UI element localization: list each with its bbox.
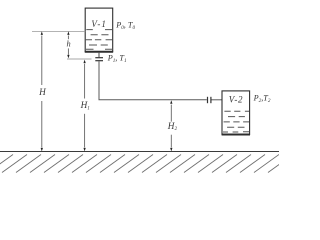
- svg-text:P0, T0: P0, T0: [115, 21, 135, 32]
- datum line at valve level: [67, 58, 92, 60]
- V-2 liquid dashes: [223, 111, 249, 132]
- svg-text:P1, T1: P1, T1: [107, 53, 127, 64]
- svg-text:H: H: [38, 87, 47, 97]
- valve (orifice) before V-2: [208, 97, 211, 103]
- valve (orifice) below V-1: [95, 58, 103, 61]
- ground hatching: [0, 155, 293, 173]
- liquid level line: [32, 30, 85, 32]
- dimension H2 (line + arrows): [170, 105, 172, 148]
- dimension H (line + arrows): [41, 36, 43, 148]
- svg-text:h: h: [67, 40, 71, 49]
- pipe into V-2: [212, 99, 223, 101]
- V-1 liquid dashes: [86, 30, 112, 50]
- pipe: horizontal run: [99, 99, 207, 101]
- svg-text:V-1: V-1: [91, 19, 107, 29]
- svg-text:V-2: V-2: [229, 95, 243, 105]
- dimension H1 (line + arrows): [84, 64, 86, 148]
- outlet stub below V-1: [98, 53, 100, 58]
- dimension h (line + arrows): [67, 36, 69, 55]
- vessel V-1: [85, 8, 113, 52]
- pipe: vertical from valve: [98, 61, 100, 100]
- ground: [0, 151, 279, 153]
- vessel V-2: [222, 91, 250, 135]
